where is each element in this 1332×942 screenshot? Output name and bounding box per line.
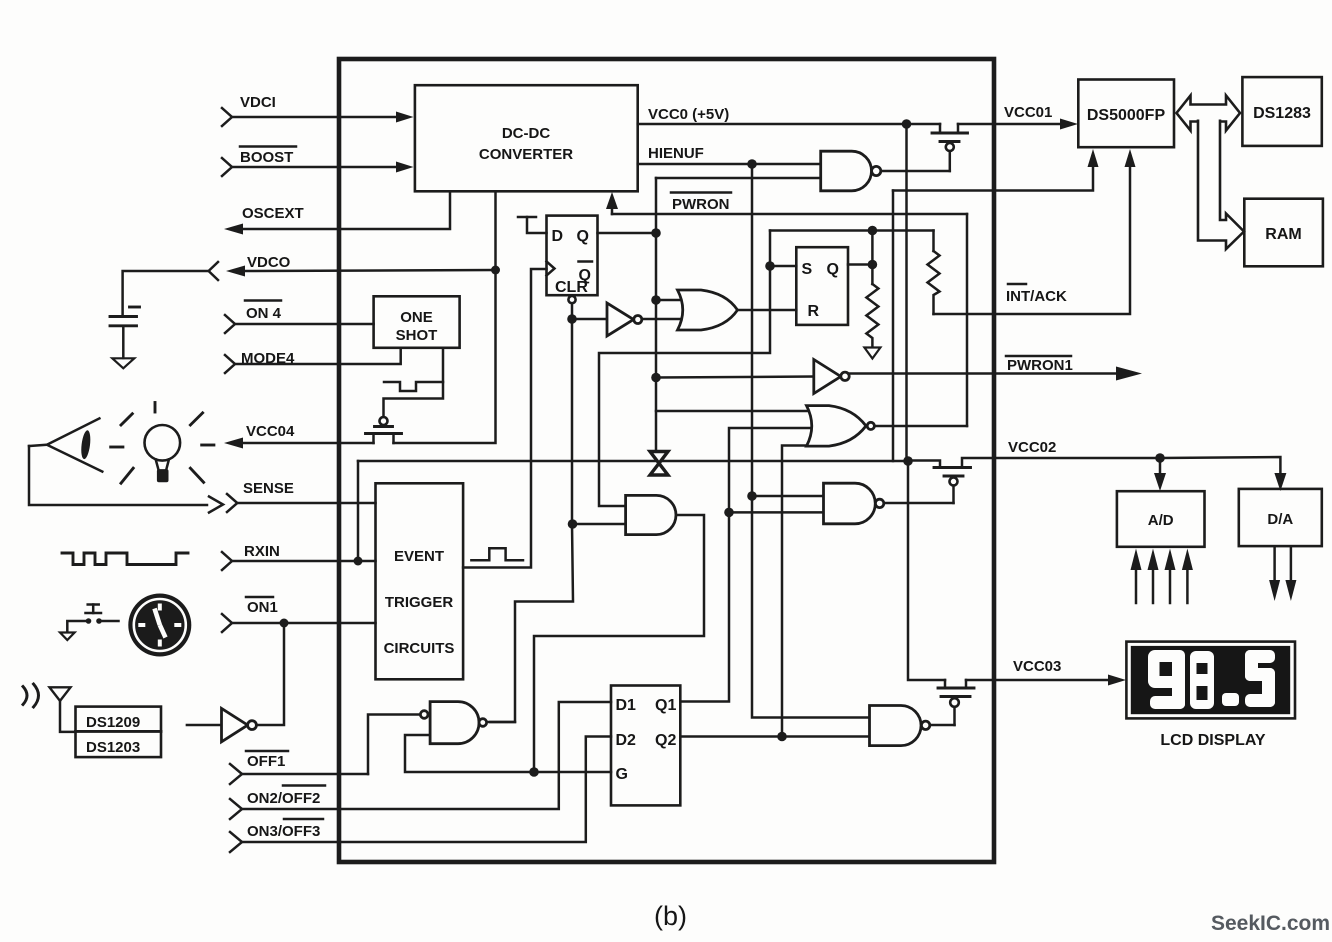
label ON1 (active low) xyxy=(246,597,278,616)
svg-text:ON1: ON1 xyxy=(247,599,278,616)
svg-text:CONVERTER: CONVERTER xyxy=(479,146,573,163)
node G net junction xyxy=(529,767,539,777)
svg-text:OSCEXT: OSCEXT xyxy=(242,205,304,222)
wire ON3/OFF3 input xyxy=(230,737,611,853)
wire inverter U4 input xyxy=(656,377,814,378)
node VDCO junction xyxy=(491,266,500,275)
svg-text:(b): (b) xyxy=(654,901,687,931)
label INT/ACK (INT active low) xyxy=(1006,284,1067,305)
svg-text:VDCI: VDCI xyxy=(240,94,276,111)
label PWRON1 (active low) xyxy=(1006,356,1073,374)
wire VCC0 (+5V) rail from DC-DC xyxy=(638,123,940,126)
svg-text:VCC0 (+5V): VCC0 (+5V) xyxy=(648,106,729,123)
wire inverter U3 input xyxy=(572,318,607,321)
wire INT/ACK to DS5000FP xyxy=(934,149,1136,314)
svg-text:OFF1: OFF1 xyxy=(247,753,285,770)
wire HIENUF from DC-DC to NAND1 xyxy=(638,163,821,166)
wire OFF1 to NAND3 inverted input xyxy=(368,715,420,775)
DC-DC converter block xyxy=(415,85,638,191)
bus arrow DS5000FP to DS1283 (bidirectional) xyxy=(1177,96,1241,131)
node Q rail top junction xyxy=(651,228,661,238)
eye sensor icon xyxy=(29,418,102,471)
svg-text:Q2: Q2 xyxy=(655,732,676,749)
OR gate G2 xyxy=(678,290,738,330)
RAM block xyxy=(1244,199,1323,267)
node latch Q junction xyxy=(868,260,878,270)
crossover symbol (bowtie) on VCC02 rail xyxy=(650,452,668,476)
light bulb icon xyxy=(111,403,214,484)
wire T-stub at D input xyxy=(518,217,547,233)
node VCC02 source junction xyxy=(903,456,913,466)
RXIN pulse train icon xyxy=(62,553,188,565)
label PWRON (active low) xyxy=(671,193,731,214)
dual D latch block D1/Q1 D2/Q2 G xyxy=(611,686,680,806)
wire clock input from event trigger output xyxy=(463,269,546,568)
one-shot block xyxy=(374,296,460,348)
svg-text:VDCO: VDCO xyxy=(247,254,291,271)
wire CLR net vertical xyxy=(490,303,573,722)
svg-text:SHOT: SHOT xyxy=(396,327,438,344)
label ON2/OFF2 xyxy=(247,786,325,808)
svg-text:R: R xyxy=(808,303,820,320)
NAND gate G6 (OFF1/G control, inverted input) xyxy=(420,702,486,744)
antenna icon xyxy=(50,687,76,732)
svg-text:DS1209: DS1209 xyxy=(86,714,140,731)
svg-text:MODE4: MODE4 xyxy=(241,350,295,367)
wire PWRON1 output xyxy=(849,367,1142,381)
svg-text:PWRON: PWRON xyxy=(672,196,730,213)
node ON1 junction xyxy=(280,619,289,628)
svg-text:PWRON1: PWRON1 xyxy=(1007,357,1073,374)
wire OR1 input 1 xyxy=(656,299,684,302)
D flip-flop U1 xyxy=(547,216,598,296)
wire ON1 input xyxy=(222,614,376,632)
node Q2 junction xyxy=(777,732,787,742)
svg-text:BOOST: BOOST xyxy=(240,149,293,166)
svg-text:D2: D2 xyxy=(616,732,637,749)
LCD digit 8 xyxy=(1190,651,1214,709)
wire inverter U3 output to OR1 xyxy=(642,318,684,321)
wire Q1 feedback to NOR1 and NAND2 xyxy=(680,428,812,702)
svg-text:DS1283: DS1283 xyxy=(1253,105,1311,122)
wire NAND2 input 1 xyxy=(752,495,824,498)
node VCC0 junction xyxy=(902,119,912,129)
bus arrow branch to RAM xyxy=(1198,120,1244,250)
svg-text:LCD DISPLAY: LCD DISPLAY xyxy=(1160,732,1266,749)
wire ON4 input xyxy=(225,315,374,333)
svg-text:CIRCUITS: CIRCUITS xyxy=(384,640,455,657)
wire NAND4 output to Q3 gate xyxy=(930,724,955,727)
svg-text:DS1203: DS1203 xyxy=(86,739,140,756)
NAND gate G1 (HIENUF) xyxy=(821,151,950,191)
inverter U4 (PWRON1 driver) xyxy=(814,360,849,394)
node RXIN junction xyxy=(354,557,363,566)
wire VCC04 output xyxy=(224,438,374,449)
label BOOST (active low) xyxy=(240,147,296,167)
svg-text:ONE: ONE xyxy=(400,309,433,326)
wire RXIN input xyxy=(222,552,376,570)
svg-text:D1: D1 xyxy=(616,697,637,714)
inverter U3 (CLR buffer) xyxy=(607,303,642,336)
wire SENSE from sensors xyxy=(29,446,376,513)
node VCC02 junction xyxy=(1155,453,1165,463)
svg-text:TRIGGER: TRIGGER xyxy=(385,594,454,611)
svg-text:DC-DC: DC-DC xyxy=(502,125,550,142)
one-shot output pulse symbol xyxy=(384,382,443,391)
wire arrow into D/A xyxy=(1274,473,1286,491)
svg-text:VCC01: VCC01 xyxy=(1004,104,1052,121)
svg-text:ON3/OFF3: ON3/OFF3 xyxy=(247,823,320,840)
wire status net vertical to VCC02 rail xyxy=(892,191,895,462)
analog input arrows into A/D xyxy=(1131,549,1193,604)
svg-text:Q1: Q1 xyxy=(655,697,676,714)
svg-text:SeekIC.com: SeekIC.com xyxy=(1211,912,1330,935)
node Q rail inverter-U4 junction xyxy=(651,373,661,383)
wire PWRON net horizontal xyxy=(612,213,967,216)
wire OFF1 input xyxy=(230,764,368,784)
svg-text:SENSE: SENSE xyxy=(243,480,294,497)
wire VCC0 vertical rail (to Q2/Q3 sources) xyxy=(907,124,946,680)
wire AND1 input 2 xyxy=(573,523,626,526)
svg-text:G: G xyxy=(616,766,628,783)
svg-text:EVENT: EVENT xyxy=(394,548,444,565)
node Q rail OR-gate junction xyxy=(651,295,661,305)
D/A converter block xyxy=(1239,489,1322,546)
wire NAND3 input 2 to G net xyxy=(405,735,534,772)
ground under R1 xyxy=(864,348,880,359)
transistor Q3 (VCC03 switch PMOS) xyxy=(938,680,974,725)
wire VCC02 source rail (to MOSFET Q2) xyxy=(358,460,908,463)
DS5000FP block xyxy=(1078,80,1174,148)
event trigger circuits block xyxy=(376,483,464,679)
wire NAND3 output to CLR net xyxy=(487,721,516,724)
svg-text:RAM: RAM xyxy=(1265,226,1301,243)
node CLR-inverter junction xyxy=(567,314,577,324)
wire OR1 output to latch R xyxy=(737,309,796,312)
wire NOR1 output to PWRON net xyxy=(875,425,968,428)
wire BOOST input xyxy=(222,158,414,176)
wire Q output rail of D flip-flop xyxy=(598,232,657,235)
wire latch Q to resistor R1 xyxy=(871,231,874,285)
transistor Q1 (VCC01 switch PMOS) xyxy=(932,124,968,171)
label OFF1 (active low) xyxy=(246,751,288,770)
label ON3/OFF3 xyxy=(247,819,323,840)
LCD digit 5 xyxy=(1245,650,1275,707)
node AND1 input-2 junction xyxy=(568,519,578,529)
LCD decimal point xyxy=(1222,693,1239,706)
wire VCC02 distribution xyxy=(1160,457,1280,474)
wire NAND2 output to Q2 gate xyxy=(884,502,954,505)
wire Q2 branch to NOR1 input 3 xyxy=(782,446,812,737)
NAND gate G7 (VCC03 control) xyxy=(870,706,930,746)
ground under C1 xyxy=(112,358,134,368)
node NAND2 input-2 junction xyxy=(724,508,734,518)
LCD display module xyxy=(1126,642,1295,719)
wire ON2/OFF2 input xyxy=(230,702,611,819)
NOR gate G3 (3-input, PWRON driver) xyxy=(807,406,875,447)
svg-text:A/D: A/D xyxy=(1148,512,1174,529)
wire NOR1 input 1 xyxy=(656,410,812,413)
resistor R2 xyxy=(928,231,940,315)
wire G net: AND1 output to latch G xyxy=(534,515,704,772)
event trigger output pulse symbol xyxy=(471,548,523,560)
resistor R1 xyxy=(866,284,878,347)
wire S net: AND1 input 1 to latch S xyxy=(599,231,770,507)
wire latch Q output xyxy=(848,263,872,266)
wire arrow into A/D xyxy=(1154,458,1166,491)
DS1283 block xyxy=(1242,77,1321,146)
wire HIENUF vertical feed to NAND2/NAND4 xyxy=(752,164,870,718)
NAND gate G5 (VCC02 control) xyxy=(824,483,884,524)
pushbutton switch icon xyxy=(60,605,119,641)
wire NAND1 input 2 from Q rail xyxy=(656,177,821,180)
svg-text:Q: Q xyxy=(827,261,839,278)
wire VDCO output xyxy=(209,262,495,280)
transistor Q2 (VCC02 switch PMOS) xyxy=(908,458,1160,503)
wire VDCO rail to DC-DC bottom xyxy=(494,191,497,270)
A/D converter block xyxy=(1117,491,1205,547)
svg-text:RXIN: RXIN xyxy=(244,543,280,560)
clock icon xyxy=(128,594,191,657)
node NAND2 input-1 junction xyxy=(747,491,757,501)
svg-text:D/A: D/A xyxy=(1267,511,1293,528)
wire VCC04 to VDCO rail xyxy=(394,270,496,443)
svg-text:HIENUF: HIENUF xyxy=(648,145,704,162)
wire latch S input xyxy=(770,265,796,268)
svg-text:VCC02: VCC02 xyxy=(1008,439,1056,456)
D flip-flop CLR bubble xyxy=(568,296,575,303)
transistor Q4 (VCC04 pass PMOS) xyxy=(366,348,444,443)
svg-text:INT/ACK: INT/ACK xyxy=(1006,288,1067,305)
backup capacitor C1 xyxy=(110,271,207,358)
wire ON1 branch down to inverter U7 output xyxy=(257,623,285,725)
svg-text:ON 4: ON 4 xyxy=(246,305,282,322)
wire OSCEXT output xyxy=(224,191,450,234)
svg-text:D: D xyxy=(552,228,564,245)
node latch top rail junction xyxy=(868,226,878,236)
label ON 4 (active low) xyxy=(245,301,282,323)
svg-text:DS5000FP: DS5000FP xyxy=(1087,107,1166,124)
radio waves icon xyxy=(23,684,39,707)
LCD digit 9 xyxy=(1148,650,1185,709)
wire VDCI input xyxy=(222,108,414,126)
svg-text:ON2/OFF2: ON2/OFF2 xyxy=(247,790,320,807)
wire VCC01 to DS5000FP xyxy=(958,119,1078,130)
svg-text:VCC04: VCC04 xyxy=(246,423,295,440)
wire RXIN branch up to VCC02 source rail xyxy=(357,461,360,561)
node latch S junction xyxy=(765,261,775,271)
svg-text:CLR: CLR xyxy=(555,279,588,296)
wire NAND2 input 2 xyxy=(729,511,824,514)
wire Q2 feedback to NAND4 xyxy=(680,735,869,738)
wire Q vertical rail xyxy=(655,178,658,453)
wire VCC03 to LCD xyxy=(966,675,1126,686)
svg-text:VCC03: VCC03 xyxy=(1013,658,1061,675)
inverter U7 (remote control input) xyxy=(187,708,257,741)
wire PWRON arrow into DC-DC xyxy=(606,192,618,214)
AND gate G4 xyxy=(626,495,676,534)
main chip boundary box xyxy=(339,59,994,862)
wire PWRON net vertical to NOR1 output xyxy=(966,214,969,426)
DS1209 / DS1203 receiver blocks xyxy=(76,707,162,758)
wire DS5000FP status arrow xyxy=(893,149,1099,191)
svg-text:Q: Q xyxy=(577,228,589,245)
svg-text:S: S xyxy=(802,261,813,278)
node HIENUF junction xyxy=(747,159,757,169)
wire latch top rail xyxy=(770,229,934,232)
analog output arrows from D/A xyxy=(1269,547,1296,601)
S-R latch U2 xyxy=(796,247,848,325)
wire MODE4 input xyxy=(225,348,401,373)
